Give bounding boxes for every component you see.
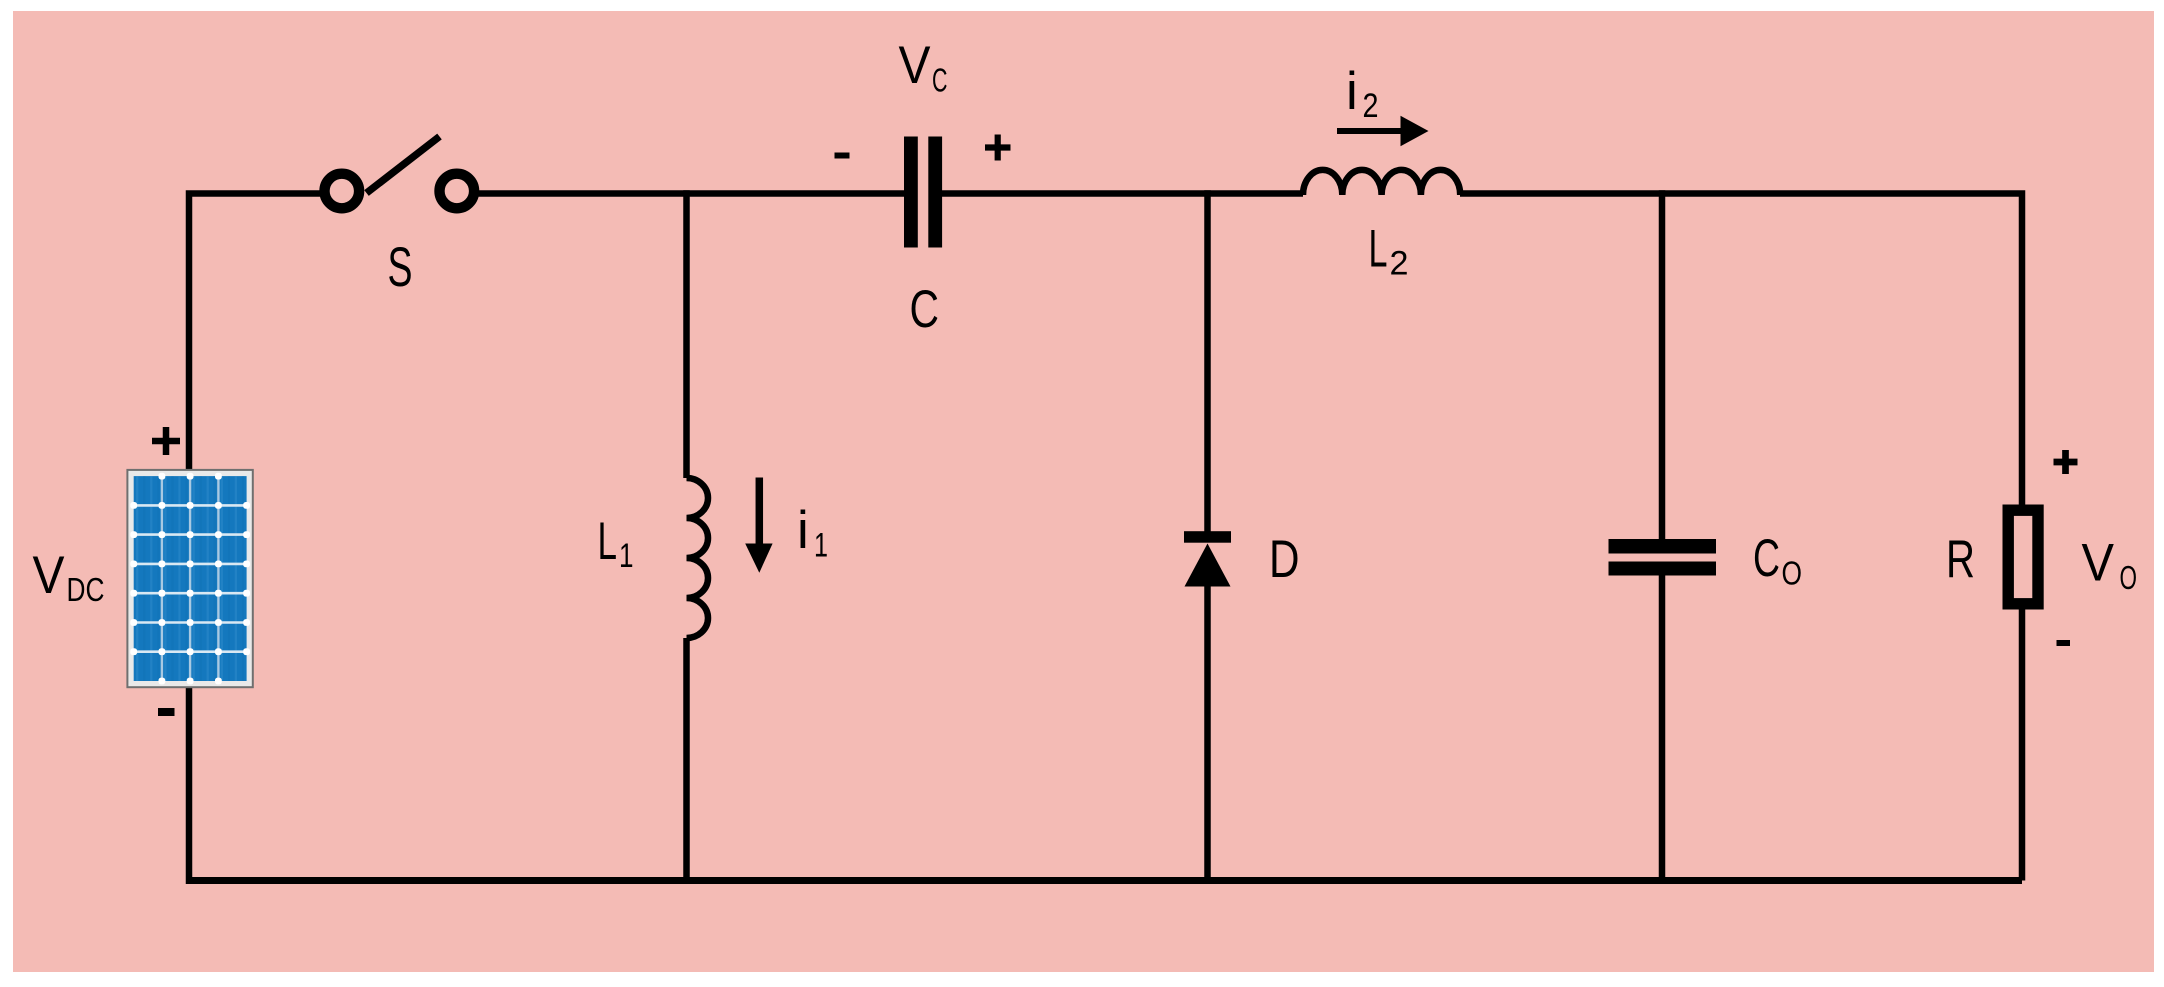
wire: top bus node A down to inductor L1 — [683, 190, 690, 478]
svg-text:S: S — [388, 235, 413, 298]
wire: top bus node C down to capacitor Co — [1659, 190, 1666, 540]
polarity minus (VO bottom) — [2057, 640, 2071, 646]
capacitor C — [904, 137, 942, 248]
diode D — [1184, 531, 1231, 586]
current arrow i1 — [745, 478, 772, 573]
wire: switch right contact to capacitor C — [478, 190, 905, 197]
polarity minus (VDC bottom) — [158, 708, 175, 716]
wire: top bus node B down to diode D — [1204, 190, 1211, 535]
svg-text:V: V — [899, 36, 932, 95]
wire: capacitor Co to bottom bus — [1659, 575, 1666, 884]
svg-text:1: 1 — [814, 527, 828, 565]
switch S blade — [367, 137, 440, 194]
svg-text:L: L — [598, 512, 618, 571]
resistor R — [2008, 510, 2038, 604]
solar panel VDC — [127, 470, 252, 687]
svg-text:1: 1 — [619, 537, 634, 575]
svg-text:C: C — [932, 62, 948, 99]
switch S right contact — [440, 174, 475, 209]
svg-text:C: C — [910, 280, 940, 339]
wire: solar panel - terminal to bottom bus — [186, 686, 193, 884]
current arrow i2 — [1337, 116, 1429, 146]
inductor L1 — [687, 478, 709, 638]
polarity minus (capacitor C left) — [835, 153, 850, 159]
polarity plus (VDC top) — [152, 427, 180, 455]
svg-text:V: V — [2082, 534, 2115, 593]
wire: diode D to bottom bus — [1204, 584, 1211, 884]
wire: capacitor C to inductor L2 (through diode node) — [942, 190, 1303, 197]
svg-text:2: 2 — [1390, 245, 1409, 283]
svg-text:O: O — [1782, 555, 1803, 592]
svg-text:DC: DC — [67, 571, 105, 608]
wire: resistor R to bottom bus (bottom-right corner) — [2019, 604, 2026, 881]
svg-text:D: D — [1269, 530, 1300, 589]
svg-text:i: i — [797, 501, 809, 560]
svg-text:2: 2 — [1363, 87, 1379, 125]
wire: inductor L1 to bottom bus — [683, 638, 690, 884]
switch S left contact — [325, 174, 360, 209]
svg-text:V: V — [33, 546, 66, 605]
svg-text:C: C — [1753, 529, 1780, 588]
svg-text:R: R — [1946, 530, 1975, 589]
polarity plus (capacitor C right) — [985, 135, 1011, 161]
svg-text:L: L — [1369, 220, 1388, 279]
polarity plus (VO top) — [2054, 450, 2078, 474]
wire: bottom bus (ground return) — [189, 877, 2022, 884]
inductor L2 — [1303, 170, 1460, 195]
svg-text:i: i — [1346, 62, 1358, 121]
svg-text:O: O — [2120, 559, 2138, 596]
wire: inductor L2 to resistor R (top-right corner) — [1460, 194, 2022, 511]
wire: solar panel + terminal up to switch (top-left corner) — [189, 194, 321, 472]
capacitor Co — [1609, 539, 1717, 576]
